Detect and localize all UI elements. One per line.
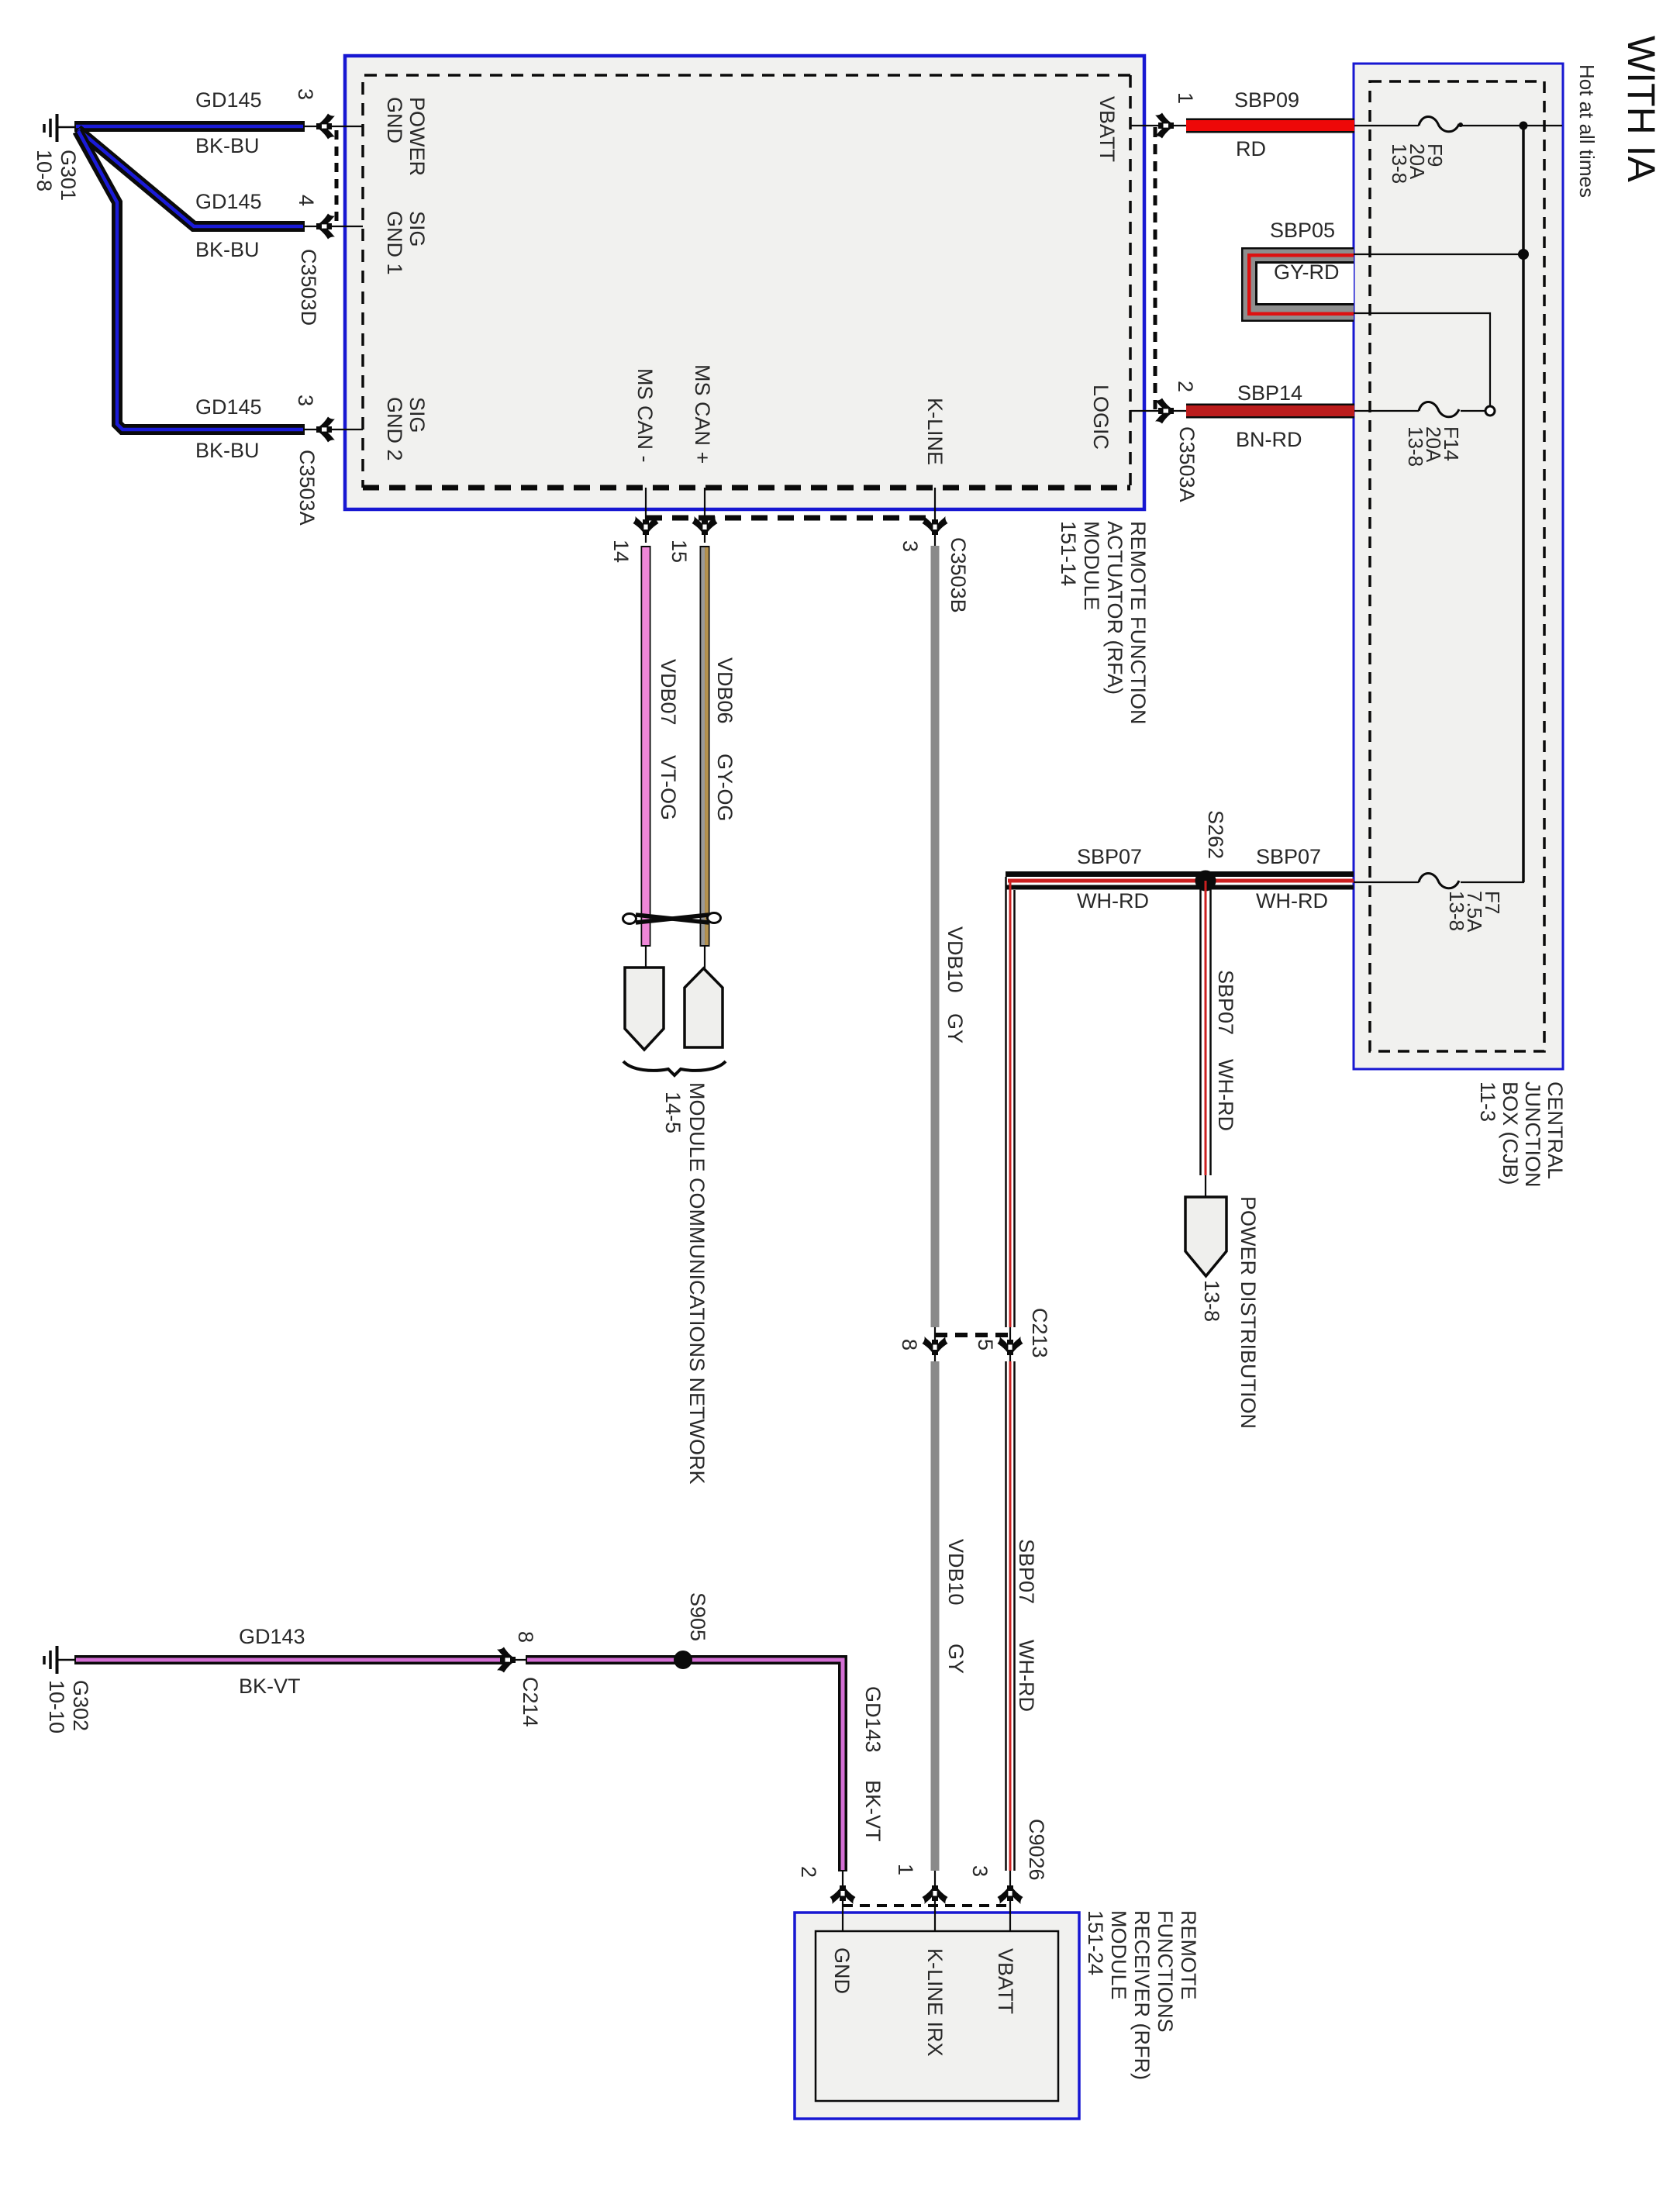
label ground G301: [32, 150, 80, 201]
label wire SBP07 WH-RD right of S262: [1256, 847, 1321, 868]
ground G302: [44, 1646, 76, 1674]
pin label K-LINE: [923, 398, 946, 465]
connector C9026 dashed line: [843, 1904, 1010, 1907]
RFA pin 14 MS CAN - lead: [633, 488, 659, 543]
RFR pin 3 VBATT lead: [998, 1871, 1023, 1931]
RFR inner solid boundary: [816, 1931, 1058, 2101]
brace under off-page arrows: [623, 1061, 726, 1075]
wire SBP05 GY-RD label loop: [1241, 247, 1354, 322]
RFA pin 2 LOGIC lead: [1130, 398, 1188, 424]
module CJB box (CENTRAL JUNCTION BOX): [1354, 64, 1563, 1069]
wire VDB06 GY-OG (MS CAN +): [703, 546, 707, 970]
fuse F7 7.5A: [1419, 873, 1459, 888]
pin number 3 (K-LINE): [899, 540, 921, 552]
off-page arrow to POWER DISTRIBUTION: [1185, 1197, 1226, 1276]
RFA pin 3 POWER GND lead: [305, 114, 363, 140]
RFA pin 3 SIG GND 2 lead: [305, 417, 363, 443]
fuse F9 20A: [1419, 116, 1463, 131]
pin label SIG GND 2: [383, 397, 428, 461]
module label RFR: [1084, 1910, 1200, 2080]
wire GD143 BK-VT (C214 to RFR pin 2): [526, 1660, 843, 1871]
RFR pin 1 K-LINE IRX lead: [923, 1871, 948, 1931]
label MODULE COMMUNICATIONS NETWORK: [685, 1082, 708, 1485]
label wire GD143 BK-VT horizontal: [239, 1626, 305, 1647]
pin number 8 (C213): [898, 1339, 920, 1350]
wire VDB07 VT-OG (MS CAN -): [641, 546, 651, 969]
wire VDB10 GY upper (K-LINE): [931, 546, 940, 1327]
pin label MS CAN +: [691, 364, 713, 464]
wire SBP07 WH-RD vertical upper: [1006, 877, 1015, 1327]
connector label C3503A right: [1175, 426, 1198, 502]
off-page arrow MS CAN + (up): [685, 968, 723, 1047]
label wire GD145 BK-BU #3: [195, 397, 262, 418]
label wire SBP07 WH-RD lower: [1015, 1539, 1037, 1604]
wire SBP07 WH-RD horizontal (F7 output): [1006, 874, 1419, 888]
label wire GD143 BK-VT vertical: [861, 1686, 884, 1753]
CJB inner dashed boundary: [1370, 81, 1544, 1051]
ground G301: [44, 114, 76, 142]
RFA pin 15 MS CAN + lead: [692, 488, 718, 543]
pin number 3 (RFR VBATT): [968, 1865, 991, 1877]
fuse label F9: [1390, 143, 1444, 184]
splice S262: [1195, 871, 1216, 892]
pin label SIG GND 1: [383, 211, 428, 275]
pin number 2 (RFR GND): [797, 1866, 819, 1878]
pin number 8 (C214): [514, 1631, 536, 1643]
label ground G302: [44, 1680, 92, 1733]
node: bus junction at SBP05 row: [1518, 249, 1529, 260]
connector label C214: [519, 1677, 541, 1727]
label wire GD145 BK-BU #1: [195, 90, 262, 111]
RFR pin 2 GND lead: [830, 1871, 856, 1931]
connector C213 pin 5 lead: [998, 1327, 1023, 1361]
wire SBP07 WH-RD vertical lower: [1006, 1361, 1015, 1871]
pin label VBATT (RFR): [994, 1948, 1016, 2014]
label wire SBP09 RD: [1234, 90, 1299, 111]
pin label POWER GND: [383, 97, 428, 176]
pin number 5 (C213): [974, 1339, 996, 1350]
connector label C9026: [1025, 1819, 1047, 1881]
label wire VDB10 GY upper: [943, 926, 966, 993]
wire from SBP05 top to bus: [1354, 254, 1523, 255]
pin number 1 (RFR K-LINE IRX): [894, 1864, 916, 1875]
wire GD145 BK-BU #3 (G301 to RFA pin 3 SIG GND 2): [78, 131, 305, 429]
fuse label F14: [1406, 426, 1460, 467]
twisted pair symbol: [623, 913, 721, 924]
wire GD145 BK-BU #2 (G301 to RFA pin 4 SIG GND 1): [78, 129, 305, 226]
wire from F9 to hot bus and right edge: [1461, 125, 1562, 126]
pin label VBATT: [1095, 96, 1118, 162]
pin number 3 (SIG GND 2): [294, 395, 316, 406]
pin number 14: [609, 540, 632, 563]
fuse label F7: [1447, 891, 1501, 933]
connector C213 pin 8 lead: [923, 1327, 948, 1361]
label wire SBP05 GY-RD: [1270, 220, 1335, 241]
pin label K-LINE IRX: [923, 1948, 946, 2057]
splice label S905: [686, 1592, 709, 1641]
label POWER DISTRIBUTION: [1237, 1196, 1259, 1429]
connector label C213: [1028, 1308, 1050, 1358]
splice S905: [674, 1651, 692, 1669]
label wire GD145 BK-BU #2: [195, 191, 262, 212]
label wire VDB10 GY lower: [944, 1539, 967, 1606]
connector label C3503D: [297, 249, 319, 326]
label wire SBP07 WH-RD left of S262: [1077, 847, 1142, 868]
wire GD145 BK-BU #1 (G301 to RFA pin 3 POWER GND): [74, 121, 305, 132]
RFA pin 1 VBATT lead: [1130, 113, 1188, 139]
label Hot at all times: [1575, 64, 1598, 198]
RFA pin 3 K-LINE lead: [923, 488, 948, 546]
wire from F7 to bus: [1461, 881, 1524, 883]
wire GD143 BK-VT (G302 to C214): [74, 1655, 504, 1664]
label wire VDB07 VT-OG: [657, 659, 679, 726]
connector C3503D dashed line: [335, 130, 339, 223]
wire VDB10 GY lower: [931, 1361, 940, 1871]
wire SBP09 RD (VBATT to fuse F9): [1186, 119, 1419, 133]
pin number 4 (SIG GND 1): [295, 195, 317, 206]
module RFA box (REMOTE FUNCTION ACTUATOR): [345, 56, 1144, 509]
module label CJB: [1476, 1081, 1566, 1188]
connector C3503A dashed line (right): [1154, 127, 1157, 409]
pin number 2 (LOGIC): [1174, 381, 1196, 392]
pin number 3 (POWER GND): [294, 88, 316, 100]
hot bus vertical wire inside CJB: [1522, 126, 1525, 882]
node: F14 terminal open circle: [1485, 406, 1495, 416]
label wire SBP07 WH-RD vertical branch: [1214, 970, 1237, 1035]
wire SBP07 WH-RD branch down from S262: [1201, 881, 1211, 1199]
wire from SBP05 bottom to F14 input: [1354, 313, 1490, 406]
module RFR box (REMOTE FUNCTIONS RECEIVER): [795, 1913, 1079, 2119]
splice label S262: [1204, 810, 1226, 859]
label wire SBP14 BN-RD: [1237, 383, 1302, 404]
connector C213 dashed line: [935, 1333, 1010, 1337]
off-page arrow MS CAN - (down): [625, 968, 664, 1050]
module label RFA: [1057, 521, 1150, 725]
node: bus junction at F9 row: [1520, 122, 1528, 130]
RFA pin 4 SIG GND 1 lead: [305, 214, 363, 240]
connector label C3503B: [947, 537, 969, 613]
pin label LOGIC: [1089, 385, 1112, 450]
label wire VDB06 GY-OG: [713, 657, 736, 724]
pin label GND: [830, 1947, 853, 1994]
connector C214 pin 8 lead: [497, 1647, 526, 1673]
pin number 15: [668, 540, 690, 563]
wire SBP14 BN-RD (LOGIC to fuse F14): [1186, 404, 1419, 419]
connector C3503B dashed line: [646, 516, 935, 521]
connector label C3503A left: [295, 450, 318, 526]
fuse F14 20A: [1419, 402, 1485, 416]
pin label MS CAN -: [633, 368, 656, 463]
pin number 1 (VBATT): [1174, 92, 1196, 104]
RFA inner dashed connector boundary: [363, 75, 1130, 488]
title WITH IA: [1621, 36, 1661, 182]
